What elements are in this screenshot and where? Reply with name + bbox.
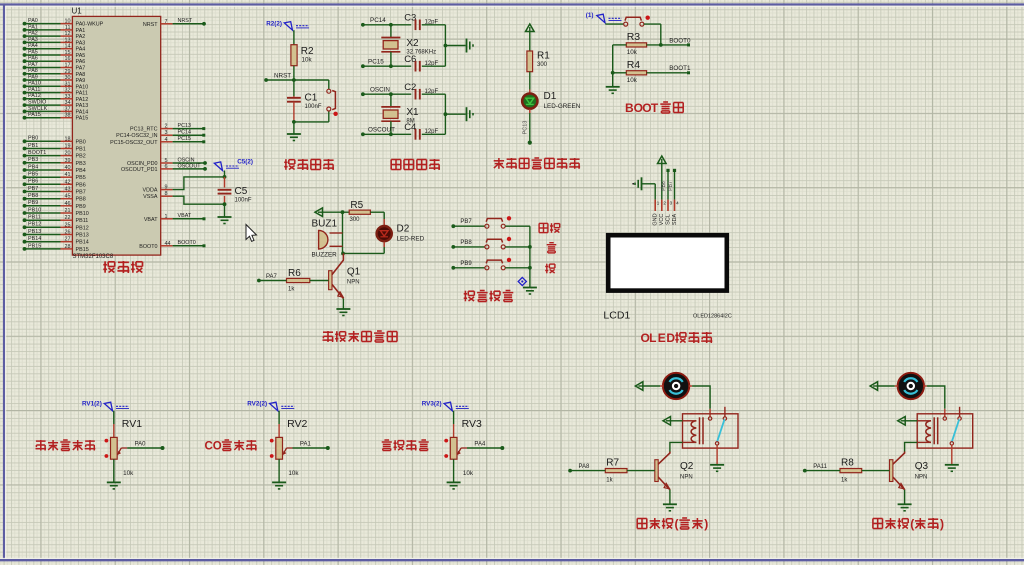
svg-text:VCC: VCC: [659, 214, 665, 226]
transistor Q3 NPN: [890, 452, 929, 504]
wire R4 left: [613, 72, 627, 74]
svg-text:PB5: PB5: [28, 172, 38, 178]
svg-text:PA4: PA4: [76, 47, 86, 53]
svg-text:): ): [940, 517, 944, 531]
wire RV2 to ground: [278, 459, 280, 482]
svg-text:32: 32: [65, 88, 71, 94]
svg-text:37: 37: [65, 106, 71, 112]
label 独立按键 (keys): [464, 291, 514, 302]
chip U1 left pin PB9 (46): [23, 200, 86, 210]
svg-text:L: L: [649, 331, 656, 345]
label OLED显示屏: [641, 331, 713, 345]
svg-text:PB3: PB3: [28, 157, 38, 163]
svg-text:PA14: PA14: [76, 109, 89, 115]
chip U1 left pin PB12 (25): [23, 222, 89, 232]
power arrow OLED: [658, 156, 667, 164]
power arrow relay coil: [663, 417, 671, 426]
svg-text:X1: X1: [406, 107, 419, 118]
svg-text:27: 27: [65, 237, 71, 243]
svg-text:PA15: PA15: [28, 112, 41, 118]
svg-text:): ): [704, 517, 708, 531]
svg-text:PA11: PA11: [28, 87, 40, 93]
wire power to R1: [529, 32, 531, 52]
svg-text:PA11: PA11: [76, 91, 88, 97]
svg-text:PB3: PB3: [76, 161, 86, 167]
node SCL terminal: [661, 169, 669, 200]
ground OLED: [632, 177, 641, 190]
chip U1 left pin PB3 (39): [23, 157, 86, 167]
display LCD1 OLED12864I2C: [603, 235, 731, 321]
label BOOT电路: [625, 101, 683, 115]
svg-text:VSSA: VSSA: [143, 194, 158, 200]
svg-text:15: 15: [65, 50, 71, 56]
svg-text:PA4: PA4: [474, 442, 486, 448]
resistor R6: [287, 268, 310, 293]
svg-text:PC15: PC15: [368, 59, 384, 66]
push button BOOT: [624, 16, 650, 27]
node PC13 terminal: [528, 141, 532, 145]
svg-text:T: T: [651, 101, 659, 115]
svg-text:U1: U1: [72, 7, 83, 16]
capacitor C1: [287, 93, 322, 111]
chip U1 left pin PA6 (16): [23, 56, 86, 66]
svg-text:C3: C3: [404, 13, 416, 24]
svg-text:BUZZER: BUZZER: [312, 252, 338, 259]
svg-text:PA0: PA0: [135, 442, 147, 448]
svg-text:10: 10: [65, 19, 71, 25]
wire R4 right / BOOT1: [647, 65, 691, 74]
svg-text:VBAT: VBAT: [144, 217, 158, 223]
svg-text:PA1: PA1: [300, 442, 312, 448]
wire RV1 to ground: [113, 459, 115, 482]
svg-text:SWCLK: SWCLK: [28, 106, 48, 112]
svg-text:10k: 10k: [302, 57, 313, 64]
resistor R7: [605, 458, 627, 484]
svg-text:300: 300: [537, 62, 548, 68]
svg-text:PA8: PA8: [28, 68, 38, 74]
chip U1 left pin PB11 (22): [23, 215, 89, 225]
crystal X2 group (32.768kHz with C3 C6): [361, 13, 473, 72]
svg-text:30: 30: [65, 75, 71, 81]
svg-text:13: 13: [65, 37, 71, 43]
svg-text:PB14: PB14: [76, 240, 89, 246]
label 晶振电路 (crystal circuit): [391, 159, 440, 170]
svg-text:LED-GREEN: LED-GREEN: [544, 103, 581, 110]
svg-text:PC15-OSC32_OUT: PC15-OSC32_OUT: [110, 140, 158, 146]
svg-text:18: 18: [65, 136, 71, 142]
svg-text:PC15: PC15: [178, 136, 192, 142]
potentiometer RV3: [444, 418, 482, 477]
svg-text:PA5: PA5: [76, 53, 86, 59]
ground RV3: [447, 482, 461, 489]
wire R1 to D1: [529, 72, 531, 93]
svg-text:BOOT0: BOOT0: [178, 240, 196, 246]
svg-text:PB5: PB5: [76, 175, 86, 181]
svg-text:PC13: PC13: [522, 121, 528, 135]
svg-text:LED-RED: LED-RED: [397, 236, 425, 243]
wire relay switch to ground: [716, 445, 718, 464]
svg-text:PB7: PB7: [668, 181, 674, 191]
chip U1 left pin PB1 (19): [23, 143, 86, 153]
chip U1 left pin PA9 (30): [23, 74, 86, 84]
svg-text:22: 22: [65, 215, 71, 221]
ground RV2: [272, 482, 286, 489]
svg-text:9: 9: [165, 185, 168, 191]
svg-text:10k: 10k: [288, 470, 299, 477]
svg-text:PB0: PB0: [28, 136, 38, 142]
svg-text:28: 28: [65, 244, 71, 250]
power arrow indicator: [526, 24, 535, 32]
svg-text:SCL: SCL: [665, 214, 671, 225]
wire coil bottom to collector: [670, 442, 683, 451]
transistor Q2 NPN: [655, 452, 694, 504]
wire probe to R2: [293, 30, 295, 45]
label 加: [547, 243, 557, 253]
svg-text:45: 45: [65, 194, 71, 200]
svg-text:46: 46: [65, 201, 71, 207]
power arrow buzzer: [315, 208, 323, 217]
chip U1 left pin PB0 (18): [23, 136, 86, 146]
label 复位电路 (reset circuit): [284, 159, 334, 170]
svg-text:PB6: PB6: [76, 182, 86, 188]
svg-text:300: 300: [350, 217, 361, 223]
svg-text:31: 31: [65, 81, 71, 87]
wire power to R5: [323, 210, 350, 214]
wire PA8 to R7: [568, 464, 605, 472]
wire RV3 wiper PA4: [467, 442, 504, 450]
wire button to R3 node: [644, 24, 661, 45]
svg-text:PB13: PB13: [28, 229, 41, 235]
resistor R1: [527, 51, 550, 72]
svg-text:C2: C2: [404, 82, 416, 93]
svg-text:1k: 1k: [841, 478, 848, 484]
svg-text:R2(2): R2(2): [266, 21, 282, 28]
probe RV1(2): [82, 401, 129, 411]
microcontroller U1: [72, 7, 161, 261]
chip U1 pin VDDA (9): [143, 177, 225, 194]
svg-text:PA1: PA1: [28, 24, 38, 30]
svg-text:PA8: PA8: [579, 464, 591, 470]
svg-text:(: (: [675, 517, 679, 531]
svg-text:PA6: PA6: [76, 59, 86, 65]
svg-text:RV3: RV3: [462, 418, 482, 430]
potentiometer RV2: [270, 418, 308, 477]
chip U1 left pin PA12 (33): [23, 93, 89, 103]
chip U1 left pin PA7 (17): [23, 62, 86, 72]
chip U1 left pin PA15 (38): [23, 112, 89, 122]
wire motor to relay: [923, 386, 944, 417]
svg-text:1: 1: [165, 214, 168, 220]
svg-text:R2: R2: [301, 46, 314, 57]
wire probe to RV3: [453, 411, 455, 438]
svg-text:(: (: [910, 517, 914, 531]
ground relay R8: [945, 465, 959, 472]
svg-text:38: 38: [65, 113, 71, 119]
svg-text:PC13: PC13: [178, 123, 192, 129]
power arrow motor Q3: [870, 382, 878, 391]
node NRST: [264, 73, 329, 82]
svg-text:Q1: Q1: [347, 267, 361, 278]
svg-text:20: 20: [65, 151, 71, 157]
ground reset: [287, 134, 301, 141]
wire C1 bottom: [292, 102, 296, 124]
svg-text:10k: 10k: [123, 470, 134, 477]
svg-text:NRST: NRST: [178, 18, 193, 24]
wire R8 to Q3 base: [862, 470, 890, 472]
svg-text:PB6: PB6: [661, 181, 667, 191]
svg-text:OSCIN: OSCIN: [370, 87, 390, 94]
probe RV3(2): [422, 401, 469, 411]
svg-text:PA3: PA3: [28, 37, 38, 43]
label 设置: [539, 223, 560, 233]
svg-text:PB10: PB10: [28, 207, 41, 213]
probe (1): [586, 12, 622, 23]
svg-text:NPN: NPN: [680, 475, 693, 481]
svg-text:40: 40: [65, 165, 71, 171]
mouse cursor: [246, 225, 257, 242]
svg-text:PA0-WKUP: PA0-WKUP: [76, 22, 104, 28]
svg-text:10k: 10k: [627, 49, 638, 56]
svg-text:BOOT1: BOOT1: [669, 65, 691, 72]
wire motor to relay: [689, 386, 710, 417]
svg-text:PB11: PB11: [76, 218, 89, 224]
wire buzzer branch: [341, 212, 345, 255]
svg-text:1k: 1k: [606, 478, 613, 484]
svg-text:PB14: PB14: [28, 236, 41, 242]
ground Q3: [898, 504, 912, 511]
svg-text:PA13: PA13: [76, 103, 89, 109]
wire NRST to button top: [328, 80, 330, 89]
svg-text:100nF: 100nF: [305, 104, 322, 110]
svg-text:2: 2: [165, 124, 168, 130]
wire R6 to Q1 base: [310, 280, 329, 282]
resistor R3: [626, 31, 646, 56]
chip U1 left pin PA11 (32): [23, 87, 88, 97]
wire R3 left to R4: [611, 45, 627, 75]
chip U1 left pin PA3 (13): [23, 37, 86, 47]
svg-text:RV1: RV1: [122, 418, 142, 430]
svg-text:D: D: [666, 331, 675, 345]
wire probe to RV2: [278, 411, 280, 438]
node SDA terminal: [668, 169, 676, 200]
chip U1 pin PC13 (2): [130, 123, 205, 133]
svg-text:VDDA: VDDA: [143, 188, 158, 194]
svg-text:Q3: Q3: [915, 461, 929, 472]
wire power to motor: [643, 385, 664, 387]
chip U1 left pin PA1 (11): [23, 24, 86, 34]
svg-text:10k: 10k: [627, 77, 638, 84]
label CO值调节: [205, 440, 257, 452]
wire bottom to button: [294, 111, 329, 122]
svg-text:E: E: [658, 331, 666, 345]
resistor R2: [291, 45, 314, 66]
svg-text:PB2: PB2: [76, 154, 86, 160]
svg-text:25: 25: [65, 222, 71, 228]
svg-text:PA15: PA15: [76, 116, 89, 122]
transistor Q1 NPN: [329, 253, 361, 308]
svg-text:43: 43: [65, 187, 71, 193]
motor Q3 fan: [898, 373, 924, 399]
wire D2 down: [343, 242, 384, 254]
ground relay R7: [710, 465, 724, 472]
svg-text:7: 7: [165, 19, 168, 25]
crystal X1 group (8M with C2 C4): [361, 82, 473, 140]
svg-text:44: 44: [165, 241, 171, 247]
svg-text:PA5: PA5: [28, 49, 38, 55]
motor Q2 fan: [663, 373, 689, 399]
svg-text:PB1: PB1: [28, 143, 38, 149]
svg-text:PA12: PA12: [76, 97, 89, 103]
ground Q1: [336, 309, 350, 316]
svg-text:PB0: PB0: [76, 139, 86, 145]
svg-text:PB4: PB4: [28, 164, 38, 170]
svg-text:PC14: PC14: [178, 130, 192, 136]
svg-text:O: O: [213, 440, 222, 452]
push button PB9: [451, 258, 530, 270]
chip U1 left pin PA0 (10): [23, 18, 104, 28]
svg-text:4: 4: [165, 137, 168, 143]
svg-text:8: 8: [165, 191, 168, 197]
svg-text:PB1: PB1: [76, 147, 86, 153]
probe C5(2): [214, 159, 253, 171]
chip U1 left pin PB4 (40): [23, 164, 86, 174]
wire R3 right / BOOT0: [647, 37, 691, 47]
svg-text:PA9: PA9: [28, 74, 38, 80]
svg-text:PB7: PB7: [76, 190, 86, 196]
svg-text:PA7: PA7: [266, 274, 278, 280]
LED D2 LED-RED: [377, 224, 425, 243]
svg-text:PB8: PB8: [76, 197, 86, 203]
resistor R8: [840, 458, 862, 484]
wire R7 to Q2 base: [627, 470, 655, 472]
svg-text:SWDIO: SWDIO: [28, 100, 46, 106]
svg-text:12: 12: [65, 31, 71, 37]
label 继电器(风扇): [637, 517, 708, 531]
svg-text:PB9: PB9: [76, 204, 86, 210]
svg-text:21: 21: [65, 208, 71, 214]
svg-text:14: 14: [65, 44, 71, 50]
svg-text:BOOT0: BOOT0: [139, 244, 157, 250]
svg-text:NRST: NRST: [143, 22, 158, 28]
chip U1 pin BOOT0 (44): [139, 240, 205, 250]
ground BOOT: [606, 87, 620, 94]
svg-text:PA0: PA0: [28, 18, 38, 24]
chip U1 left pin PB10 (21): [23, 207, 89, 217]
svg-text:BUZ1: BUZ1: [312, 219, 338, 230]
svg-text:C4: C4: [404, 122, 416, 133]
wire C1 to ground: [293, 122, 295, 134]
svg-text:PB7: PB7: [28, 186, 38, 192]
wire OLED VCC: [661, 164, 663, 200]
svg-text:PB12: PB12: [28, 222, 41, 228]
svg-text:RV2(2): RV2(2): [247, 401, 267, 408]
node blue diamond: [518, 277, 526, 285]
wire power to motor: [878, 385, 899, 387]
chip U1 pin OSCIN (5): [127, 157, 207, 167]
svg-text:PA10: PA10: [28, 81, 41, 87]
svg-text:PC14: PC14: [370, 17, 386, 24]
ground C5: [218, 217, 232, 224]
svg-text:34: 34: [65, 100, 71, 106]
svg-text:17: 17: [65, 63, 71, 69]
svg-text:R7: R7: [606, 458, 619, 469]
svg-text:PB12: PB12: [76, 225, 89, 231]
relay R8: [917, 407, 973, 448]
svg-text:1k: 1k: [288, 287, 295, 293]
buzzer BUZ1: [312, 219, 343, 259]
svg-text:29: 29: [65, 69, 71, 75]
ground keys: [523, 288, 537, 295]
svg-text:11: 11: [65, 25, 71, 31]
svg-text:41: 41: [65, 172, 71, 178]
svg-text:OLED12864I2C: OLED12864I2C: [693, 314, 732, 320]
svg-text:R8: R8: [841, 458, 854, 469]
svg-text:PA10: PA10: [76, 84, 89, 90]
wire probe to RV1: [113, 411, 115, 438]
wire C5 top: [223, 171, 227, 179]
svg-text:C5: C5: [235, 186, 248, 197]
svg-text:C6: C6: [404, 54, 416, 65]
chip U1 left pin PA5 (15): [23, 49, 86, 59]
svg-text:BOOT1: BOOT1: [28, 150, 46, 156]
wire R2 to NRST node: [293, 66, 295, 80]
wire RV2 wiper PA1: [293, 442, 330, 450]
LED D1 LED-GREEN: [522, 91, 580, 110]
svg-text:Q2: Q2: [680, 461, 694, 472]
resistor R4: [626, 59, 646, 84]
svg-text:PA7: PA7: [28, 62, 38, 68]
potentiometer RV1: [105, 418, 143, 477]
svg-text:SDA: SDA: [672, 214, 678, 226]
push button reset: [327, 89, 338, 116]
wire coil top: [905, 420, 917, 422]
wire D1 to PC13: [522, 109, 530, 142]
svg-text:C1: C1: [305, 93, 318, 104]
svg-text:PA12: PA12: [28, 93, 41, 99]
label 减: [545, 264, 555, 274]
svg-text:26: 26: [65, 230, 71, 236]
chip U1 left pin SWCLK (37): [23, 106, 89, 116]
push button PB8: [451, 237, 530, 249]
chip U1 left pin PB14 (27): [23, 236, 89, 246]
svg-text:OSCOUT_PD1: OSCOUT_PD1: [121, 167, 158, 173]
power arrow relay coil: [898, 417, 906, 426]
label 主芯片 (main chip): [103, 261, 142, 273]
svg-text:PB8: PB8: [28, 193, 38, 199]
label 继电器(净化): [873, 517, 944, 531]
wire coil bottom to collector: [905, 442, 918, 451]
wire R4 node to ground: [612, 73, 614, 87]
chip U1 left pin PB6 (42): [23, 179, 86, 189]
svg-text:RV1(2): RV1(2): [82, 401, 102, 408]
svg-text:19: 19: [65, 144, 71, 150]
LCD1 pins GND VCC SCL SDA: [653, 200, 680, 226]
svg-text:C: C: [205, 440, 213, 452]
capacitor C5: [218, 177, 252, 204]
svg-text:3: 3: [165, 130, 168, 136]
chip U1 pin PC15 (4): [110, 136, 205, 146]
svg-text:NPN: NPN: [347, 280, 360, 286]
svg-text:PC13_RTC: PC13_RTC: [130, 127, 158, 133]
probe R2(2): [266, 21, 309, 31]
svg-text:GND: GND: [653, 213, 659, 225]
svg-text:R3: R3: [627, 31, 641, 43]
relay R7: [683, 407, 739, 448]
chip U1 left pin PB5 (41): [23, 172, 86, 182]
chip U1 pin NRST (7): [143, 18, 206, 28]
svg-text:NPN: NPN: [915, 475, 928, 481]
probe RV2(2): [247, 401, 294, 411]
